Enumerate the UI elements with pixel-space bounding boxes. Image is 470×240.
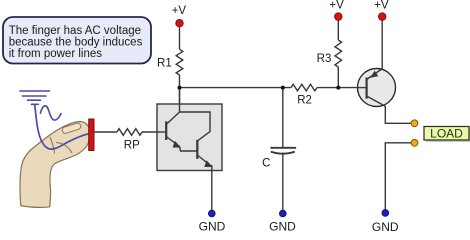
svg-text:R2: R2 (297, 94, 312, 106)
svg-text:because the body induces: because the body induces (9, 37, 143, 49)
svg-text:The finger has AC voltage: The finger has AC voltage (9, 25, 141, 37)
svg-text:LOAD: LOAD (430, 126, 463, 140)
svg-text:R3: R3 (317, 53, 332, 65)
svg-text:RP: RP (124, 140, 140, 152)
svg-text:GND: GND (269, 220, 296, 233)
svg-text:+V: +V (172, 5, 187, 17)
svg-text:GND: GND (199, 220, 226, 233)
svg-text:R1: R1 (157, 58, 172, 70)
svg-text:C: C (262, 158, 270, 170)
svg-text:GND: GND (372, 220, 399, 232)
svg-text:+V: +V (374, 0, 389, 11)
svg-text:it from power lines: it from power lines (9, 48, 103, 60)
svg-text:+V: +V (329, 0, 344, 11)
